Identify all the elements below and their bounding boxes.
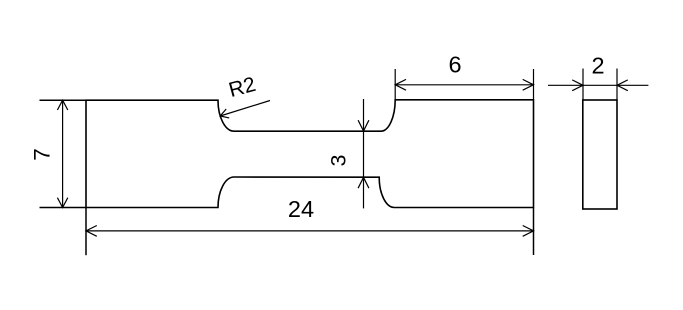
extension line right for dim 24 — [533, 208, 535, 256]
svg-text:24: 24 — [288, 196, 314, 222]
extension line right for dim 6 — [533, 69, 535, 100]
extension line left for dim 6 — [394, 69, 396, 100]
dimension line 2 (outside arrows) — [548, 80, 648, 91]
svg-text:6: 6 — [448, 52, 461, 78]
extension line left for dim 2 — [582, 69, 584, 101]
extension line left for dim 24 — [85, 208, 87, 256]
extension line bottom for dim 7 — [40, 207, 87, 209]
dimension line 7 — [57, 100, 67, 207]
side view rectangle — [583, 100, 617, 209]
leader line R2 — [220, 101, 270, 118]
svg-text:7: 7 — [29, 148, 54, 161]
svg-text:3: 3 — [327, 154, 351, 166]
dimension line 24 — [86, 226, 534, 237]
svg-text:2: 2 — [591, 53, 604, 79]
dimension line 3 (vertical, outside arrows) — [358, 99, 369, 208]
extension line top for dim 7 — [40, 99, 87, 101]
specimen front view outline (dog-bone) — [86, 100, 534, 208]
dimension line 6 — [395, 79, 533, 90]
extension line right for dim 2 — [616, 69, 618, 101]
svg-text:R2: R2 — [226, 73, 258, 102]
